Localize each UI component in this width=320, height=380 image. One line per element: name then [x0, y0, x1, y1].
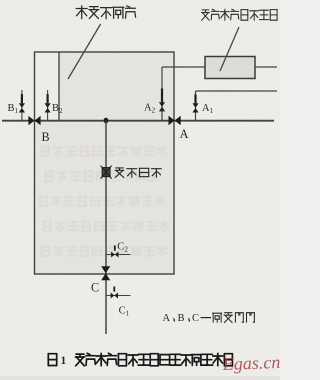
- caption fig prefix: [48, 354, 56, 366]
- wire: B2 branch: [47, 90, 49, 121]
- region boundary rectangle: [35, 52, 175, 274]
- wire: C2 branch line: [106, 254, 131, 256]
- legend comma marks: [173, 318, 190, 322]
- wire: vertical C branch pipe: [105, 121, 107, 335]
- wire: pipe out of recovery box: [255, 66, 277, 68]
- label vent-gas recovery device: [202, 9, 278, 20]
- label area-awaiting-maintenance: [76, 6, 136, 19]
- wire: inner vertical pipe: [58, 52, 60, 121]
- wire: A1 branch vertical: [195, 91, 197, 121]
- wire: B1 branch: [21, 90, 23, 121]
- valve C (vertical bowtie on bottom edge): [101, 266, 110, 273]
- valve C2: [111, 252, 115, 258]
- valve B (main isolation bowtie): [28, 116, 34, 125]
- shaded region (area under maintenance): [35, 52, 175, 274]
- wire: C1 branch line: [106, 295, 131, 297]
- valve A2: [159, 102, 165, 107]
- wire: main horizontal pipe: [2, 120, 274, 122]
- valve B2: [45, 103, 51, 108]
- wire: pipe into recovery box: [162, 66, 205, 68]
- label isolation-valves: [213, 313, 255, 323]
- valve A1: [192, 103, 198, 108]
- ghost bleed-through text rows: [42, 146, 167, 156]
- wire: A2 branch vertical: [161, 67, 163, 121]
- valve B1: [19, 103, 25, 108]
- caption title: [75, 353, 232, 366]
- valve A (main isolation bowtie): [169, 116, 175, 125]
- legend dash: [201, 317, 212, 319]
- node: junction main pipe / C branch: [104, 118, 109, 124]
- scan smudge bottom edge: [0, 376, 280, 380]
- recovery device box: [205, 57, 255, 79]
- scan grain overlay: [0, 0, 1, 1]
- valve C1: [111, 293, 115, 299]
- repair point marker: [101, 166, 112, 179]
- label repair location: [115, 168, 161, 178]
- leader line to recovery box: [220, 27, 239, 71]
- wire: A1 branch horizontal: [196, 90, 278, 92]
- leader line to shaded region: [68, 24, 101, 79]
